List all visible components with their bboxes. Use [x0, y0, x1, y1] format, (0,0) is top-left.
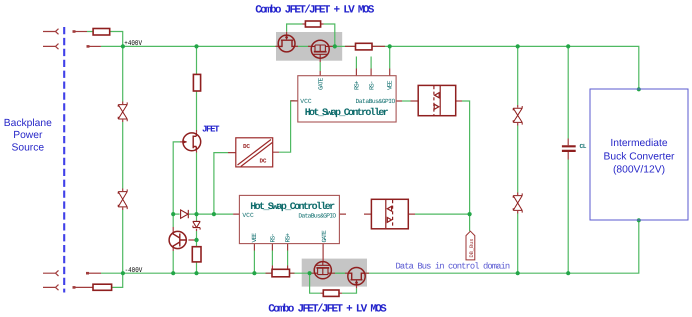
svg-text:Intermediate: Intermediate [610, 138, 668, 149]
svg-text:RS+: RS+ [285, 233, 292, 243]
svg-text:-400V: -400V [125, 267, 143, 275]
svg-text:Backplane: Backplane [4, 118, 52, 129]
svg-text:DC: DC [243, 143, 250, 150]
svg-text:Hot_Swap_Controller: Hot_Swap_Controller [305, 107, 389, 119]
svg-text:RS+: RS+ [354, 80, 361, 90]
svg-text:CL: CL [580, 143, 587, 150]
svg-text:DC: DC [260, 158, 267, 165]
svg-text:VCC: VCC [242, 212, 254, 219]
svg-text:DB_Bus: DB_Bus [469, 239, 475, 258]
svg-text:Power: Power [13, 130, 43, 141]
svg-text:DataBus&GPIO: DataBus&GPIO [356, 98, 396, 105]
svg-text:RS-: RS- [368, 81, 375, 91]
svg-text:VEE: VEE [251, 233, 258, 243]
svg-text:Buck Converter: Buck Converter [604, 152, 676, 163]
svg-text:RS-: RS- [270, 233, 277, 243]
svg-text:VEE: VEE [387, 80, 394, 90]
svg-text:Hot_Swap_Controller: Hot_Swap_Controller [250, 201, 335, 213]
svg-text:Data Bus in control domain: Data Bus in control domain [396, 261, 511, 271]
svg-text:JFET: JFET [202, 124, 220, 134]
svg-text:Source: Source [11, 143, 44, 154]
svg-text:+400V: +400V [124, 40, 142, 48]
svg-text:VCC: VCC [300, 98, 312, 105]
svg-text:Combo JFET/JFET + LV MOS: Combo JFET/JFET + LV MOS [255, 5, 374, 17]
svg-text:Combo JFET/JFET + LV MOS: Combo JFET/JFET + LV MOS [268, 304, 387, 316]
svg-text:GATE: GATE [318, 77, 325, 90]
svg-text:GATE: GATE [321, 230, 328, 243]
svg-text:DataBus&GPIO: DataBus&GPIO [298, 212, 336, 219]
svg-text:(800V/12V): (800V/12V) [613, 165, 665, 176]
